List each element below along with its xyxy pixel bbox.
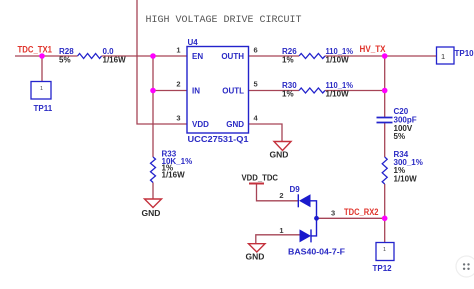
resistor R28 (78, 54, 102, 59)
svg-text:1/16W: 1/16W (103, 56, 127, 65)
svg-text:1%: 1% (282, 90, 294, 99)
wire HV_TX bus down to C20 (384, 56, 386, 118)
diode D9 bottom (anode pin 1) (300, 218, 317, 242)
svg-text:1: 1 (383, 247, 386, 253)
svg-text:U4: U4 (188, 38, 199, 47)
svg-text:VDD_TDC: VDD_TDC (242, 174, 279, 183)
junction at TDC_TX1 / TP11 (39, 53, 45, 59)
svg-text:GND: GND (246, 252, 265, 262)
ground below pin 4 (274, 142, 291, 151)
svg-text:GND: GND (226, 120, 244, 129)
svg-text:EN: EN (192, 52, 203, 61)
junction at TDC_RX2 row (382, 216, 388, 222)
svg-text:HIGH VOLTAGE DRIVE CIRCUIT: HIGH VOLTAGE DRIVE CIRCUIT (146, 15, 302, 26)
wire VDD_TDC to diode pin 2 (257, 184, 299, 201)
wire EN/IN tie bus down to R33 (152, 56, 154, 157)
svg-text:D9: D9 (290, 185, 301, 194)
svg-text:3: 3 (331, 209, 335, 218)
test point TP11 (31, 82, 51, 100)
power symbol VDD_TDC (249, 183, 264, 185)
wire drop to TP11 (41, 56, 43, 82)
svg-text:TP11: TP11 (34, 104, 53, 113)
svg-text:1%: 1% (282, 56, 294, 65)
svg-text:1: 1 (441, 52, 445, 61)
svg-text:1: 1 (279, 226, 283, 235)
resistor R33 (151, 157, 156, 183)
wire R30 to HV_TX bus (325, 90, 385, 92)
svg-text:TP12: TP12 (373, 264, 393, 273)
svg-text:TDC_RX2: TDC_RX2 (344, 207, 379, 217)
svg-text:TDC_TX1: TDC_TX1 (18, 45, 53, 55)
svg-text:UCC27531-Q1: UCC27531-Q1 (188, 135, 250, 144)
svg-text:2: 2 (176, 80, 180, 89)
ground at diode pin 1 (249, 244, 266, 252)
svg-text:VDD: VDD (192, 120, 209, 129)
test point TP12 (376, 243, 394, 261)
svg-text:6: 6 (254, 46, 258, 55)
svg-text:2: 2 (279, 191, 283, 200)
svg-text:IN: IN (192, 87, 200, 96)
wire VDD vertical feed to pin 3 (137, 0, 187, 124)
svg-text:5%: 5% (394, 132, 406, 141)
wire OUTH to R26 (249, 55, 300, 57)
wire OUTL to R30 (249, 90, 300, 92)
junction at OUTL row (382, 88, 388, 94)
node common cathode D9 pin 3 (314, 216, 319, 221)
op-amp U4 gate driver UCC27531-Q1 (187, 47, 249, 134)
svg-text:5%: 5% (59, 56, 71, 65)
wire R28 to EN pin (102, 55, 188, 57)
svg-text:TP10: TP10 (455, 49, 474, 58)
viewer floating button (456, 256, 474, 277)
svg-text:GND: GND (270, 150, 289, 160)
junction at EN row (150, 53, 156, 59)
svg-text:OUTH: OUTH (221, 52, 244, 61)
wire diode common pin 3 to TDC_RX2 (317, 217, 385, 219)
test point TP10 (437, 47, 455, 64)
svg-text:3: 3 (176, 114, 180, 123)
resistor R26 (299, 54, 325, 59)
svg-text:1/10W: 1/10W (326, 56, 350, 65)
svg-text:1: 1 (176, 46, 180, 55)
wire TDC_TX1 row to EN (left of R28) (15, 55, 78, 57)
wire C20 to R34 (384, 123, 386, 158)
junction at HV_TX row (382, 53, 388, 59)
svg-text:1/10W: 1/10W (394, 175, 418, 184)
wire R34 to TDC_RX2 and TP12 (384, 184, 386, 243)
svg-text:5: 5 (254, 80, 258, 89)
resistor R34 (382, 157, 387, 184)
wire R33 bottom to GND (152, 183, 154, 200)
svg-text:1/10W: 1/10W (326, 90, 350, 99)
svg-text:OUTL: OUTL (222, 87, 244, 96)
svg-text:1/16W: 1/16W (162, 171, 186, 180)
capacitor C20 (377, 118, 393, 123)
wire R26 to TP10 (HV_TX) (325, 55, 437, 57)
ground below R33 (145, 199, 162, 208)
svg-text:GND: GND (142, 208, 161, 218)
svg-text:1: 1 (40, 86, 43, 92)
wire GND to diode pin 1 (256, 235, 300, 244)
svg-text:HV_TX: HV_TX (360, 44, 386, 54)
wire IN pin row (153, 90, 187, 92)
svg-text:4: 4 (254, 114, 259, 123)
wire GND pin 4 to ground (249, 124, 283, 142)
resistor R30 (299, 88, 325, 93)
svg-text:BAS40-04-7-F: BAS40-04-7-F (288, 248, 345, 257)
diode D9 top (cathode to pin 2) (298, 194, 316, 218)
junction at IN row (150, 88, 156, 94)
